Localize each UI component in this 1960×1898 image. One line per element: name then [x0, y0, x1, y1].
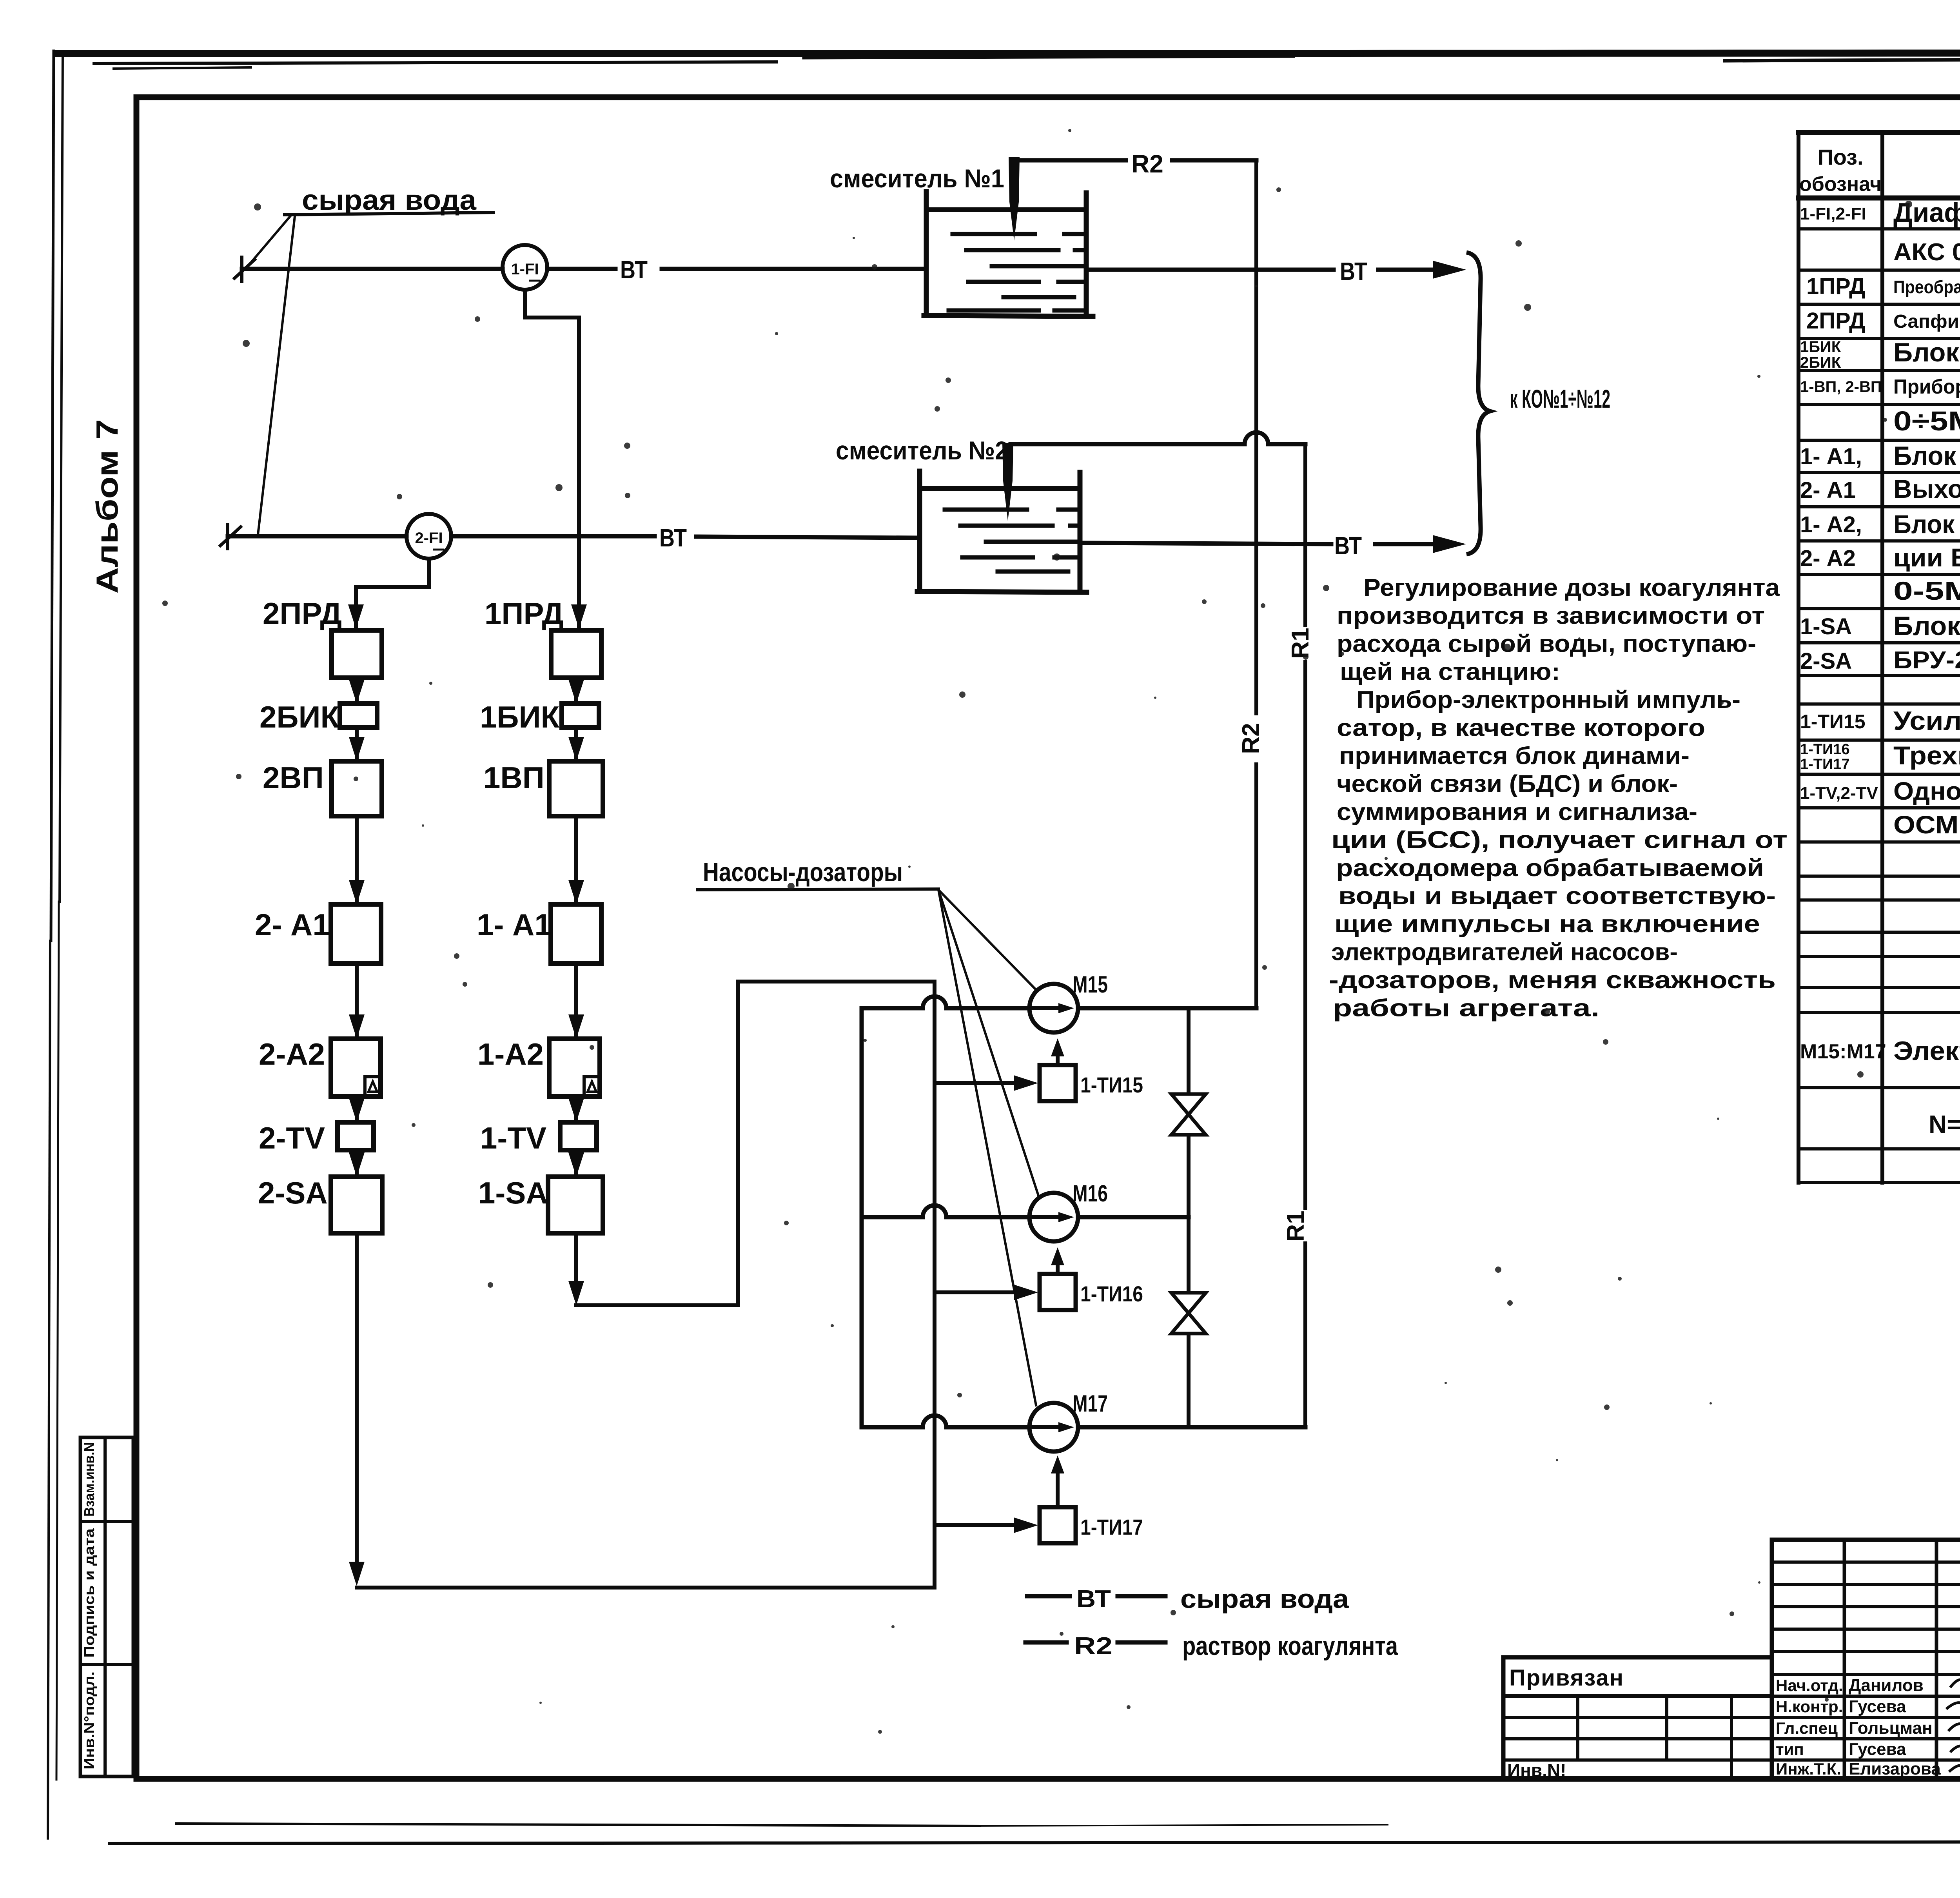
svg-text:Данилов: Данилов: [1849, 1676, 1924, 1695]
svg-text:Подпись и дата: Подпись и дата: [81, 1528, 97, 1658]
svg-text:Насосы-дозаторы: Насосы-дозаторы: [703, 857, 903, 887]
svg-text:работы агрегата.: работы агрегата.: [1333, 995, 1599, 1022]
svg-text:1-ТИ16: 1-ТИ16: [1080, 1281, 1143, 1306]
svg-text:Инв.N!: Инв.N!: [1507, 1760, 1566, 1780]
svg-text:М15: М15: [1073, 971, 1108, 998]
svg-text:суммирования и сигнализа-: суммирования и сигнализа-: [1337, 798, 1697, 826]
svg-text:расхода сырой воды, поступаю-: расхода сырой воды, поступаю-: [1337, 630, 1756, 657]
svg-text:Прибор-электронный импуль-: Прибор-электронный импуль-: [1356, 686, 1740, 713]
svg-text:1-SA: 1-SA: [1800, 614, 1852, 639]
svg-text:1БИК: 1БИК: [480, 700, 560, 734]
svg-text:Гусева: Гусева: [1849, 1740, 1906, 1759]
svg-text:щей на станцию:: щей на станцию:: [1340, 659, 1560, 686]
svg-text:2-FI: 2-FI: [415, 530, 443, 547]
svg-text:2-А2: 2-А2: [259, 1037, 325, 1071]
svg-text:ВТ: ВТ: [1334, 532, 1362, 560]
svg-text:1-ТИ17: 1-ТИ17: [1080, 1515, 1143, 1539]
svg-text:R1: R1: [1287, 628, 1314, 659]
svg-text:щие импульсы на включение: щие импульсы на включение: [1334, 911, 1760, 938]
svg-text:электродвигателей насосов-: электродвигателей насосов-: [1331, 939, 1678, 966]
svg-text:АКС 0,6200-А-1-а/б-1ГОСТ26969-: АКС 0,6200-А-1-а/б-1ГОСТ26969-88: [1893, 239, 1960, 266]
svg-text:2-SA: 2-SA: [258, 1176, 328, 1210]
svg-text:-дозаторов, меняя скважность: -дозаторов, меняя скважность: [1329, 967, 1776, 994]
svg-text:воды и выдает соответствую-: воды и выдает соответствую-: [1338, 883, 1776, 910]
svg-text:1-SA: 1-SA: [478, 1176, 548, 1210]
svg-text:М17: М17: [1073, 1390, 1108, 1417]
svg-text:2БИК: 2БИК: [260, 700, 339, 734]
svg-text:ческой связи (БДС) и блок-: ческой связи (БДС) и блок-: [1337, 771, 1678, 798]
svg-text:N=2,2кВт: N=2,2кВт: [1929, 1110, 1960, 1138]
svg-text:1-FI,2-FI: 1-FI,2-FI: [1800, 204, 1866, 223]
svg-text:Инв.N°подл.: Инв.N°подл.: [81, 1671, 97, 1769]
svg-text:2- А2: 2- А2: [1800, 546, 1856, 571]
svg-text:2- А1: 2- А1: [255, 907, 330, 942]
svg-text:Сапфир 22ДД.2410-02УХЛ*31-0.25: Сапфир 22ДД.2410-02УХЛ*31-0.25/0.25 кПа-…: [1893, 311, 1960, 332]
svg-text:сатор, в качестве которого: сатор, в качестве которого: [1337, 715, 1705, 742]
svg-text:Регулирование дозы коагулянта: Регулирование дозы коагулянта: [1363, 574, 1780, 601]
svg-text:1- А2,: 1- А2,: [1800, 512, 1862, 537]
svg-text:Елизарова: Елизарова: [1849, 1759, 1941, 1778]
svg-text:М15:М17: М15:М17: [1800, 1040, 1886, 1063]
svg-text:2- А1: 2- А1: [1800, 477, 1856, 503]
svg-text:1ПРД: 1ПРД: [485, 596, 564, 631]
svg-text:расходомера обрабатываемой: расходомера обрабатываемой: [1336, 855, 1764, 882]
svg-text:1-ТИ17: 1-ТИ17: [1800, 756, 1850, 773]
svg-text:БРУ-22. Выходной сигнал 0-5МА: БРУ-22. Выходной сигнал 0-5МА: [1893, 647, 1960, 674]
svg-text:1- А1,: 1- А1,: [1800, 444, 1862, 469]
svg-text:2ПРД: 2ПРД: [1806, 308, 1865, 334]
svg-text:Трехпозиционный У-22М: Трехпозиционный У-22М: [1893, 741, 1960, 770]
svg-text:2БИК: 2БИК: [1800, 354, 1841, 371]
svg-text:принимается блок динами-: принимается блок динами-: [1339, 742, 1690, 769]
svg-text:1-ТИ16: 1-ТИ16: [1800, 741, 1850, 758]
svg-text:1-А2: 1-А2: [477, 1037, 544, 1071]
svg-text:Н.контр.: Н.контр.: [1776, 1697, 1843, 1716]
svg-text:1-TV,2-TV: 1-TV,2-TV: [1800, 784, 1878, 803]
svg-text:М16: М16: [1073, 1180, 1108, 1207]
svg-text:1-TV: 1-TV: [480, 1121, 546, 1155]
svg-text:1- А1: 1- А1: [477, 907, 552, 942]
svg-text:Взам.инв.N: Взам.инв.N: [81, 1442, 97, 1517]
svg-text:ВТ: ВТ: [1076, 1586, 1111, 1613]
svg-text:1-FI: 1-FI: [511, 261, 539, 278]
svg-text:1-ВП, 2-ВП: 1-ВП, 2-ВП: [1800, 378, 1882, 396]
svg-text:ции (БСС), получает сигнал от: ции (БСС), получает сигнал от: [1331, 827, 1788, 854]
svg-text:Прибор регистрирующий, предел: Прибор регистрирующий, предел измерения: [1893, 376, 1960, 398]
svg-text:R2: R2: [1238, 723, 1265, 754]
svg-text:Нач.отд.: Нач.отд.: [1776, 1676, 1843, 1695]
svg-text:1ВП: 1ВП: [483, 760, 544, 795]
svg-text:2-TV: 2-TV: [259, 1121, 325, 1155]
svg-text:2ВП: 2ВП: [263, 760, 324, 795]
svg-text:обознач: обознач: [1799, 173, 1882, 196]
svg-text:ВТ: ВТ: [620, 256, 648, 284]
svg-text:Однофазный трансформатор: Однофазный трансформатор: [1893, 777, 1960, 805]
svg-text:Выходной сигнал 0-5МА ~220В: Выходной сигнал 0-5МА ~220В: [1893, 474, 1960, 503]
svg-text:Диафрагма камерная Ду= 200: Диафрагма камерная Ду= 200: [1893, 197, 1960, 228]
svg-text:Привязан: Привязан: [1509, 1665, 1624, 1691]
svg-text:ОСМ1-0.1: ОСМ1-0.1: [1893, 811, 1960, 839]
svg-text:производится в зависимости от: производится в зависимости от: [1337, 602, 1765, 630]
svg-text:1-ТИ15: 1-ТИ15: [1800, 711, 1866, 733]
svg-text:Электродвигатель 4А 90 L4: Электродвигатель 4А 90 L4: [1893, 1036, 1960, 1066]
svg-text:Гусева: Гусева: [1849, 1697, 1906, 1716]
svg-text:Усилитель тиристорный: Усилитель тиристорный: [1893, 706, 1960, 736]
svg-text:Блок ручного управления: Блок ручного управления: [1893, 611, 1960, 641]
svg-text:ВТ: ВТ: [1340, 257, 1367, 285]
svg-text:2-SA: 2-SA: [1800, 648, 1852, 674]
svg-text:Блок динамической связи БДС: Блок динамической связи БДС: [1893, 441, 1960, 471]
svg-text:1БИК: 1БИК: [1800, 338, 1841, 356]
svg-text:ВТ: ВТ: [659, 524, 687, 552]
svg-text:сырая вода: сырая вода: [302, 185, 477, 216]
svg-text:сырая вода: сырая вода: [1180, 1584, 1349, 1614]
svg-text:Альбом 7: Альбом 7: [90, 419, 124, 594]
svg-text:R1: R1: [1282, 1210, 1309, 1241]
svg-text:тип: тип: [1776, 1740, 1804, 1758]
svg-text:смеситель №1: смеситель №1: [830, 164, 1004, 193]
svg-text:R2: R2: [1131, 150, 1163, 178]
svg-text:Блок извлечения корня БИК-1: Блок извлечения корня БИК-1: [1893, 338, 1960, 367]
svg-text:1ПРД: 1ПРД: [1806, 274, 1865, 299]
svg-text:Гл.спец: Гл.спец: [1776, 1719, 1838, 1737]
svg-text:ции БСС. Выходной сигнал: ции БСС. Выходной сигнал: [1893, 543, 1960, 572]
svg-text:раствор коагулянта: раствор коагулянта: [1182, 1631, 1398, 1661]
svg-text:2ПРД: 2ПРД: [263, 596, 342, 631]
svg-text:смеситель №2: смеситель №2: [836, 436, 1008, 465]
svg-text:Блок суммирования и сигнализа-: Блок суммирования и сигнализа-: [1893, 510, 1960, 539]
svg-text:0÷5МА РП-160-09: 0÷5МА РП-160-09: [1893, 406, 1960, 436]
svg-text:к КО№1÷№12: к КО№1÷№12: [1510, 384, 1610, 413]
svg-text:Преобразователь измерительный: Преобразователь измерительный разности д…: [1893, 277, 1960, 297]
svg-text:0-5МА ~220В: 0-5МА ~220В: [1893, 576, 1960, 605]
svg-text:1-ТИ15: 1-ТИ15: [1080, 1072, 1143, 1097]
svg-text:Инж.Т.К.: Инж.Т.К.: [1776, 1760, 1841, 1778]
svg-text:Поз.: Поз.: [1817, 145, 1863, 169]
svg-text:R2: R2: [1074, 1633, 1112, 1660]
svg-text:Гольцман: Гольцман: [1849, 1718, 1933, 1738]
